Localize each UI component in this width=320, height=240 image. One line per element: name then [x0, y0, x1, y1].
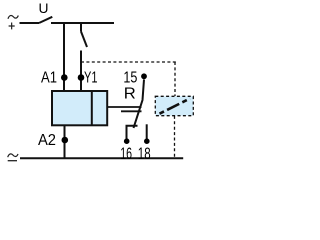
svg-text:R: R: [124, 86, 136, 103]
svg-text:U: U: [39, 0, 49, 16]
svg-text:Y1: Y1: [84, 70, 98, 87]
svg-text:A1: A1: [41, 70, 57, 87]
svg-text:18: 18: [138, 145, 151, 163]
svg-text:A2: A2: [38, 132, 56, 149]
svg-text:16: 16: [120, 145, 132, 163]
svg-text:15: 15: [123, 70, 137, 87]
